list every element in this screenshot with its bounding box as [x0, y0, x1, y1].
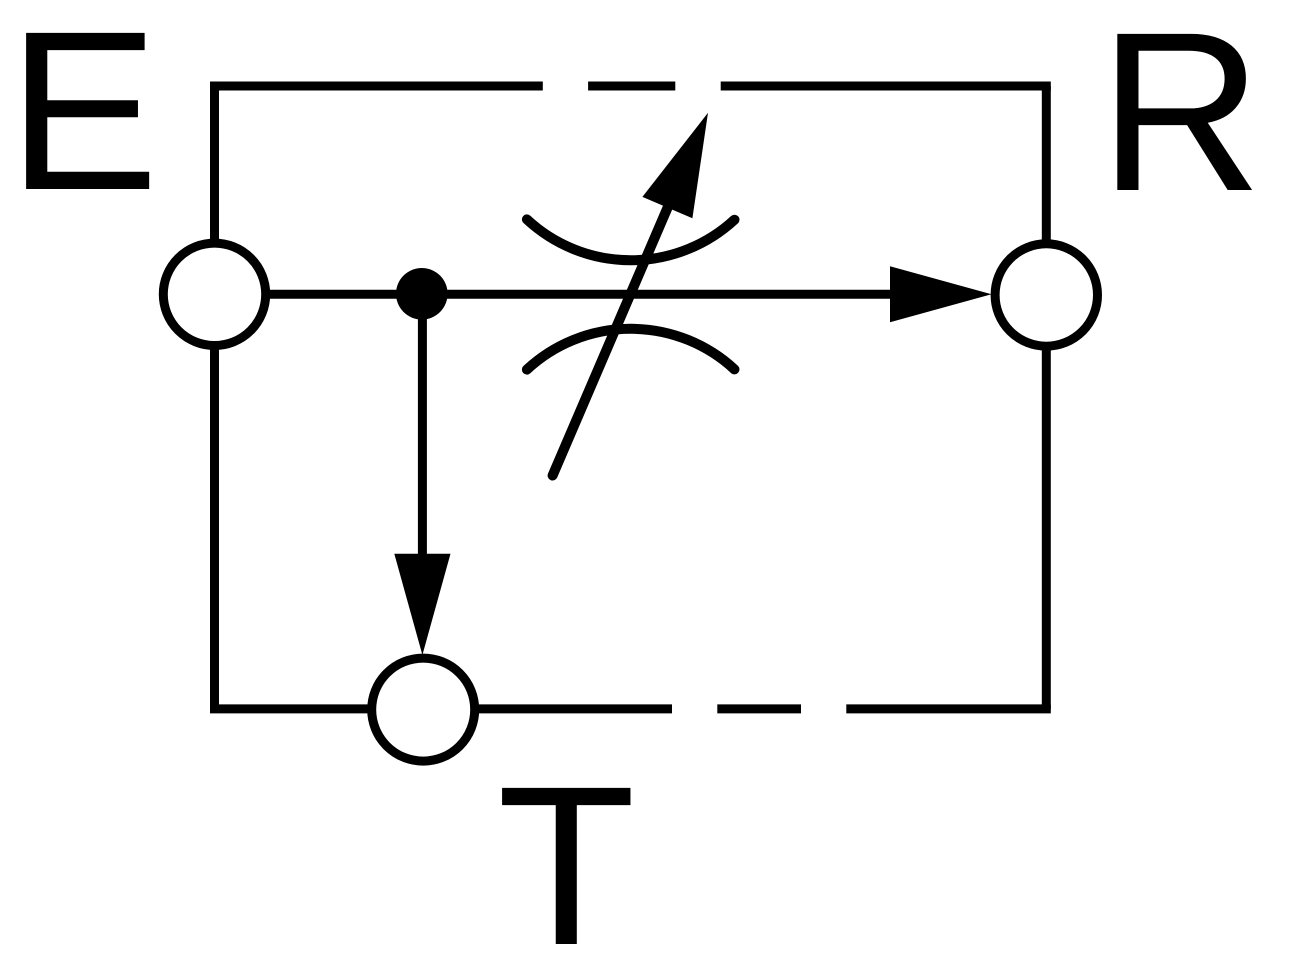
- arrowhead at R port: [890, 266, 992, 322]
- enclosure top edge (dashed): [215, 86, 1047, 91]
- variable restrictor upper arc: [527, 219, 735, 260]
- svg-text:T: T: [497, 740, 636, 970]
- variable restrictor diagonal arrow shaft: [553, 188, 676, 476]
- enclosure right edge: [1042, 86, 1051, 709]
- variable restrictor lower arc: [527, 329, 735, 370]
- port R circle: [995, 244, 1097, 346]
- port T circle: [372, 658, 475, 761]
- arrowhead at T port: [394, 554, 450, 655]
- enclosure left edge: [210, 86, 219, 709]
- variable restrictor arrowhead: [642, 113, 708, 219]
- svg-text:R: R: [1099, 0, 1263, 239]
- port E circle: [163, 243, 265, 345]
- enclosure bottom edge (dashed): [215, 705, 1047, 709]
- wire: main horizontal E to R: [215, 290, 892, 299]
- svg-text:E: E: [8, 0, 159, 238]
- wire: vertical drop from junction to T: [418, 294, 427, 556]
- node junction dot: [396, 268, 448, 320]
